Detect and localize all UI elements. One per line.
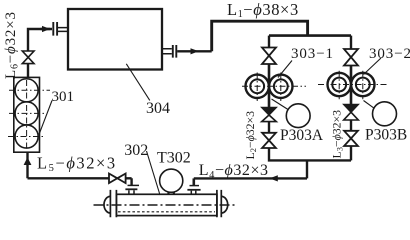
wire L6 riser elbow to tank <box>28 29 52 77</box>
svg-text:303−2: 303−2 <box>369 46 410 62</box>
tank right nozzle <box>162 49 172 54</box>
exchanger left flanges <box>110 190 116 217</box>
leader 303-1 <box>278 61 292 78</box>
svg-text:302: 302 <box>124 142 148 159</box>
leader 303-2 <box>364 58 382 75</box>
wire L4 riser to exchanger right nozzle <box>193 178 196 186</box>
leader 302 <box>147 151 161 195</box>
heat exchanger 302 shell <box>116 194 216 215</box>
left nozzle pipe flange tick <box>128 184 140 186</box>
pump 303-2 centerlines <box>318 71 389 100</box>
leader 304 <box>126 64 150 101</box>
unit 301 vessel centerlines <box>8 80 50 150</box>
wire L1: nozzle to riser <box>177 50 212 52</box>
wire <box>350 146 352 160</box>
gauge P303A <box>286 104 310 128</box>
valve V5 (on L5 line) <box>109 174 126 184</box>
arrow up into 301 <box>24 157 32 165</box>
pump 303-2 (gear pump, two circles) <box>328 73 375 96</box>
svg-text:301: 301 <box>52 89 75 105</box>
tank 304 <box>68 9 162 70</box>
valve V6 (pump B discharge) <box>344 131 358 146</box>
wire through pump A <box>268 64 271 108</box>
gauge P303B <box>373 102 397 126</box>
tank left nozzle flange <box>53 22 57 36</box>
valve V1 (on L6 line) <box>22 51 34 64</box>
wire <box>350 120 352 131</box>
wire through pump B <box>350 66 353 105</box>
pump 303-1 centerlines <box>242 73 306 102</box>
valve V2 (pump A suction) <box>262 48 276 65</box>
wire suction header <box>269 34 351 37</box>
T302 instrument circle <box>160 169 183 192</box>
arrow into tank left nozzle <box>41 28 51 30</box>
exchanger left head cap <box>104 196 110 213</box>
valve V4 (pump B suction) <box>344 49 358 66</box>
wire L1 riser up and header <box>212 21 308 51</box>
301 circles <box>15 79 38 148</box>
valve V3 (pump A discharge) <box>262 133 276 148</box>
T302 foot <box>169 192 174 195</box>
arrow on L1 start <box>191 48 199 54</box>
wire to discharge header <box>269 148 351 160</box>
wire L5 from 301 to valve <box>28 152 110 178</box>
tank right nozzle flange <box>173 45 177 58</box>
tube line (dashed) <box>118 211 215 213</box>
svg-text:P303A: P303A <box>280 127 324 144</box>
arrow on L4 pointing left <box>270 175 278 181</box>
check valve pump B discharge <box>344 105 359 113</box>
wire right suction drop <box>350 36 352 49</box>
svg-text:304: 304 <box>146 100 170 117</box>
wire valve to exchanger left nozzle <box>126 178 132 186</box>
svg-text:303−1: 303−1 <box>291 46 334 62</box>
svg-text:P303B: P303B <box>365 126 407 143</box>
exchanger right flanges <box>217 190 221 217</box>
leader 301 <box>39 101 52 135</box>
exchanger right nozzle <box>187 189 200 191</box>
svg-text:T302: T302 <box>157 149 191 166</box>
heat exchanger 302 centerline <box>94 204 235 206</box>
right nozzle pipe flange tick <box>190 185 200 187</box>
wire left suction drop <box>268 36 270 48</box>
leader P303B <box>364 101 375 109</box>
leader P303A <box>272 99 289 110</box>
check valve pump A discharge <box>262 108 277 116</box>
exchanger left nozzle <box>125 188 137 190</box>
wire L4 header <box>194 177 307 179</box>
pump 303-1 (gear pump, two circles) <box>246 75 293 98</box>
exchanger right head cap <box>221 196 227 213</box>
wire drop to L4 header <box>306 160 308 178</box>
wire <box>268 122 270 133</box>
unit 301 vessel <box>14 77 40 152</box>
